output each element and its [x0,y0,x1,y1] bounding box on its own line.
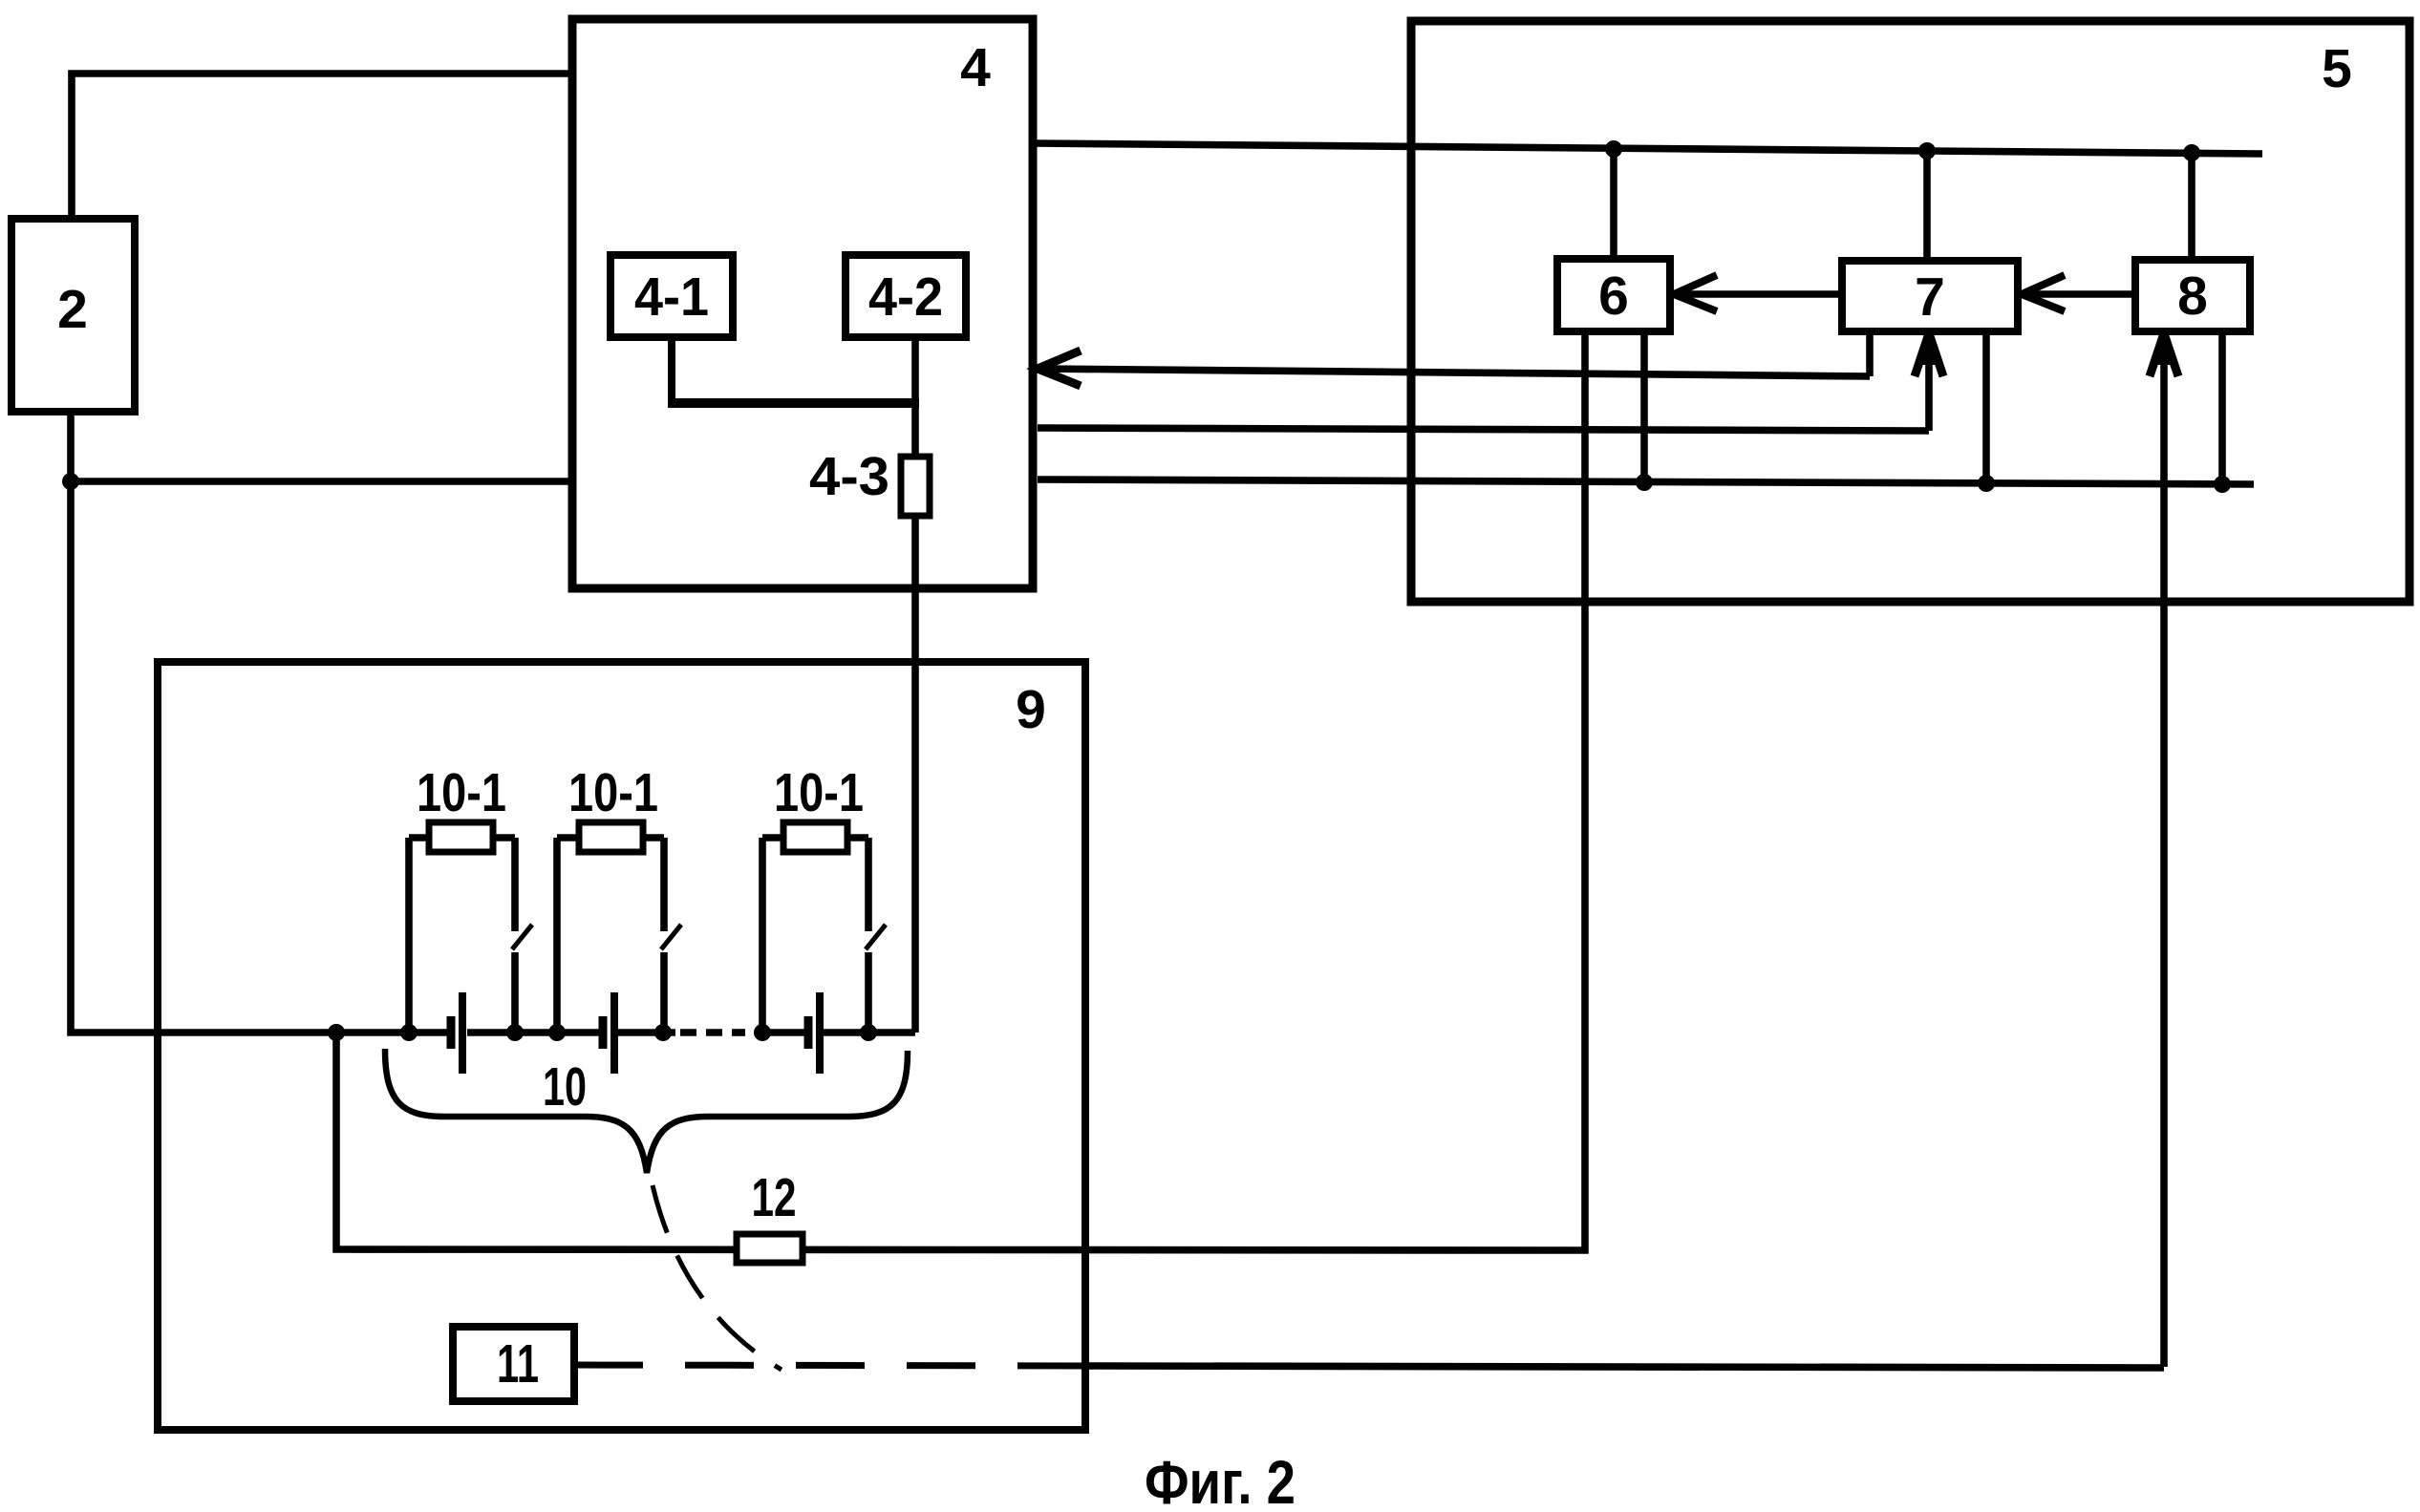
svg-text:10: 10 [543,1056,587,1118]
svg-text:10-1: 10-1 [774,762,864,823]
svg-text:12: 12 [752,1167,797,1228]
svg-text:10-1: 10-1 [417,762,506,823]
svg-text:4-3: 4-3 [809,446,889,507]
svg-text:6: 6 [1598,266,1629,327]
svg-text:9: 9 [1016,679,1046,740]
svg-text:11: 11 [497,1333,539,1395]
svg-text:4: 4 [960,37,991,98]
svg-text:Фиг. 2: Фиг. 2 [1145,1448,1296,1512]
svg-text:7: 7 [1915,266,1945,328]
svg-text:8: 8 [2177,266,2208,327]
svg-text:5: 5 [2322,38,2352,99]
svg-text:10-1: 10-1 [568,762,658,823]
svg-text:2: 2 [57,279,88,340]
svg-text:4-2: 4-2 [868,266,943,328]
svg-text:4-1: 4-1 [634,266,709,328]
